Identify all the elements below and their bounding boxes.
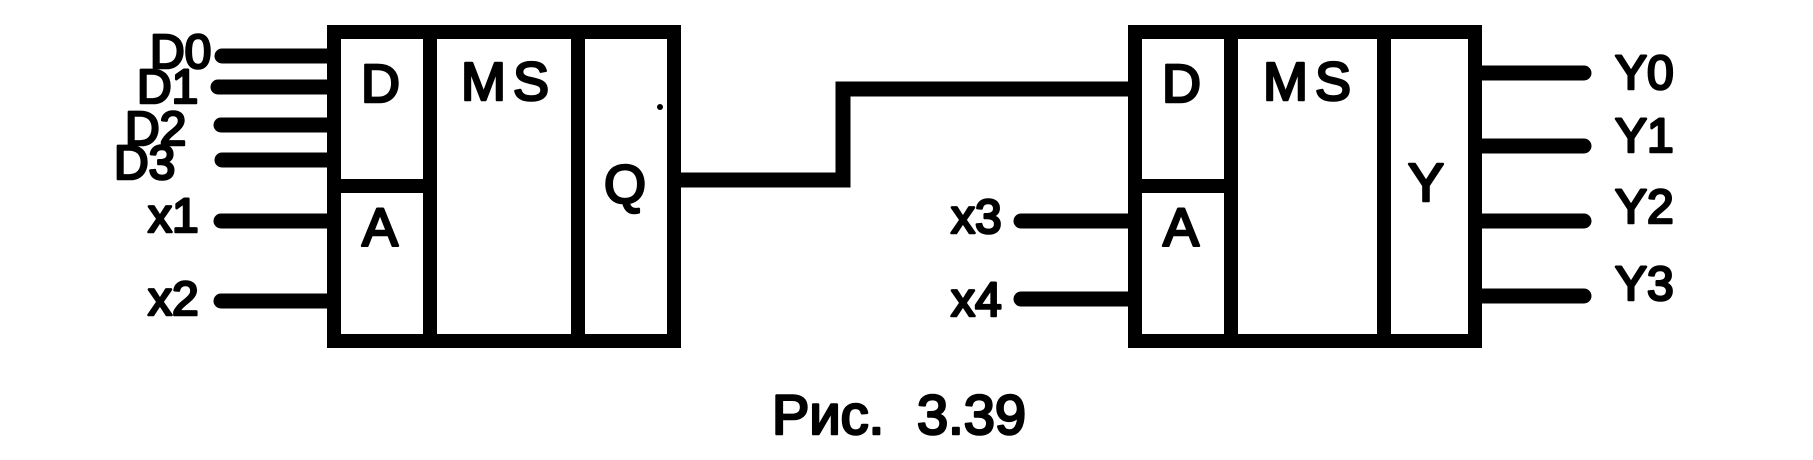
wire D1 input: [218, 80, 333, 95]
svg-text:D3: D3: [114, 137, 175, 190]
svg-text:MS: MS: [461, 52, 556, 112]
U1 divider D section / A section: [334, 179, 430, 193]
wire D3 input: [222, 153, 333, 168]
multiplexer U1 outline: [334, 32, 674, 341]
svg-text:x3: x3: [951, 191, 1002, 244]
U1 divider MS field | Q column: [571, 25, 585, 348]
wire x1 input: [221, 214, 333, 229]
wire Y2 output: [1476, 214, 1584, 229]
wire Y0 output: [1476, 66, 1584, 81]
U2 divider D section / A section: [1135, 179, 1231, 193]
wire x3 input: [1021, 214, 1134, 229]
svg-text:Y1: Y1: [1615, 110, 1674, 163]
svg-text:MS: MS: [1263, 52, 1358, 112]
wire Y3 output: [1476, 289, 1584, 304]
wire D0 input: [222, 49, 333, 64]
svg-text:x1: x1: [148, 190, 199, 243]
U2 divider MS field | Y column: [1377, 25, 1391, 348]
U2 divider D/A column | MS field: [1224, 25, 1238, 348]
wire Q output to U2 D input: [674, 89, 1142, 180]
svg-text:Q: Q: [604, 155, 646, 215]
svg-text:Y0: Y0: [1615, 47, 1674, 100]
svg-text:D: D: [1162, 54, 1201, 114]
svg-text:x2: x2: [148, 273, 199, 326]
svg-text:Рис.: Рис.: [772, 383, 884, 446]
svg-text:Y2: Y2: [1615, 181, 1674, 234]
svg-text:3.39: 3.39: [917, 383, 1026, 446]
svg-text:D: D: [361, 54, 400, 114]
svg-text:Y3: Y3: [1615, 258, 1674, 311]
wire Y1 output: [1476, 139, 1584, 154]
svg-text:A: A: [1163, 198, 1199, 258]
U1 divider D/A column | MS field: [423, 25, 437, 348]
wire D2 input: [221, 118, 333, 133]
multiplexer U2 outline: [1135, 32, 1475, 341]
ink speck: [657, 104, 663, 110]
svg-text:A: A: [362, 198, 398, 258]
svg-text:Y: Y: [1408, 153, 1444, 213]
svg-text:x4: x4: [951, 274, 1002, 327]
wire x4 input: [1021, 292, 1134, 307]
wire x2 input: [221, 294, 333, 309]
